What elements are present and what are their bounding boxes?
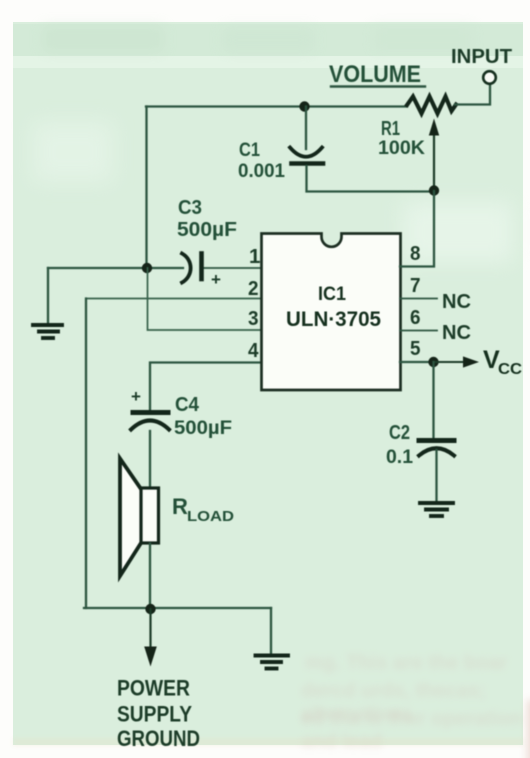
node E: Vcc junction dot bbox=[428, 357, 438, 367]
capacitor C2 bbox=[419, 438, 454, 443]
svg-text:GROUND: GROUND bbox=[117, 726, 200, 751]
svg-text:100K: 100K bbox=[378, 137, 425, 159]
pin 8 wire up to node B bbox=[400, 191, 434, 267]
svg-text:2: 2 bbox=[248, 277, 259, 300]
svg-text:SUPPLY: SUPPLY bbox=[117, 702, 192, 727]
svg-text:C4: C4 bbox=[175, 394, 200, 416]
svg-text:R: R bbox=[172, 494, 188, 519]
ground (left, input ground) bbox=[47, 268, 49, 323]
svg-text:CC: CC bbox=[498, 361, 522, 378]
op-amp U1 : IC1 ULN-3705 box bbox=[262, 234, 401, 391]
svg-text:4: 4 bbox=[248, 339, 259, 362]
wire: pin 4 line to C4 bbox=[150, 363, 261, 410]
ground (bottom right) bbox=[270, 608, 272, 653]
wiper arrow of R1 bbox=[433, 134, 435, 188]
svg-text:NC: NC bbox=[442, 291, 471, 313]
svg-text:500µF: 500µF bbox=[177, 219, 237, 241]
svg-text:IC1: IC1 bbox=[318, 284, 346, 305]
svg-text:500µF: 500µF bbox=[174, 417, 232, 439]
speaker R_LOAD bbox=[120, 459, 141, 577]
node C: junction dot C3 left bbox=[142, 263, 152, 273]
svg-text:+: + bbox=[131, 387, 141, 406]
wire: left long vertical to bottom bus bbox=[85, 299, 87, 609]
wire: top bus from left vertical to R1 left end bbox=[146, 105, 407, 107]
node B: junction dot wiper/C1/pin8 bbox=[429, 185, 439, 195]
svg-text:6: 6 bbox=[410, 306, 421, 329]
node D: bottom junction dot bbox=[145, 604, 155, 614]
underline of VOLUME bbox=[331, 85, 425, 87]
node A: junction dot top bus / C1 bbox=[299, 101, 309, 111]
wire: vertical from top bus down to C3 left junction bbox=[145, 107, 147, 269]
wire: speaker bottom lead bbox=[149, 544, 151, 610]
pin 5 / Vcc bbox=[400, 361, 433, 363]
pin 6 NC stub bbox=[400, 330, 437, 332]
svg-text:7: 7 bbox=[410, 274, 421, 297]
svg-text:INPUT: INPUT bbox=[451, 45, 512, 68]
input terminal circle bbox=[483, 71, 496, 84]
resistor R1 (potentiometer zigzag) bbox=[407, 97, 456, 114]
wire: pin 2 line bbox=[86, 298, 261, 300]
arrow to power supply ground bbox=[149, 609, 151, 648]
arrow to Vcc bbox=[434, 361, 465, 363]
svg-text:C1: C1 bbox=[239, 139, 260, 161]
wire: node E down to C2 bbox=[432, 362, 434, 438]
wire: bottom bus bbox=[84, 607, 271, 609]
svg-text:VOLUME: VOLUME bbox=[329, 61, 421, 88]
ground (below C2) bbox=[420, 501, 453, 505]
svg-text:LOAD: LOAD bbox=[187, 508, 234, 525]
wire: R1 right lead to input corner bbox=[455, 85, 490, 105]
capacitor C3 bbox=[182, 254, 191, 283]
pin 7 NC stub bbox=[400, 298, 437, 300]
wire: pin 1 line from ground stub through C3 bbox=[48, 267, 183, 269]
svg-text:C3: C3 bbox=[178, 197, 202, 219]
svg-text:ULN·3705: ULN·3705 bbox=[286, 308, 381, 331]
svg-text:POWER: POWER bbox=[117, 676, 190, 701]
svg-text:1: 1 bbox=[249, 245, 260, 268]
capacitor C1 bbox=[305, 107, 307, 150]
svg-text:NC: NC bbox=[442, 322, 471, 344]
svg-text:8: 8 bbox=[410, 242, 421, 265]
svg-text:3: 3 bbox=[248, 307, 259, 330]
svg-text:5: 5 bbox=[410, 337, 421, 360]
wire: pin 3 line from C3 junction bbox=[148, 268, 262, 330]
svg-text:0.001: 0.001 bbox=[238, 160, 285, 182]
svg-text:C2: C2 bbox=[389, 422, 410, 444]
svg-text:+: + bbox=[211, 270, 221, 289]
ghost bleed-through text bbox=[305, 652, 507, 675]
svg-text:0.1: 0.1 bbox=[386, 446, 413, 468]
